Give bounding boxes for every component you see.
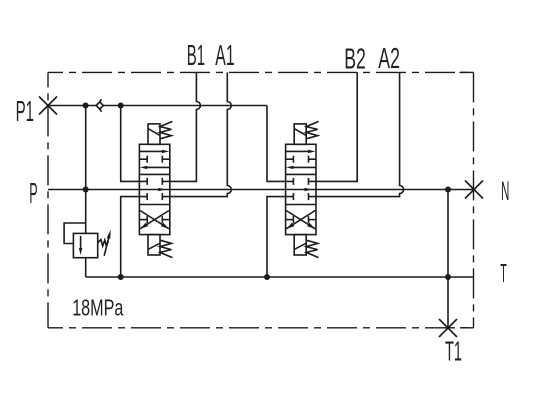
junction dot T/T1 xyxy=(445,274,451,280)
wire valve1 tank drop xyxy=(121,197,148,277)
valve V1 centre carryover arrow xyxy=(158,188,165,191)
svg-text:B1: B1 xyxy=(187,40,205,72)
wire P1 gallery horizontal xyxy=(48,105,267,107)
svg-text:A1: A1 xyxy=(215,40,234,72)
svg-text:T: T xyxy=(500,258,507,288)
valve V2 centre carryover arrow xyxy=(305,188,312,191)
svg-text:N: N xyxy=(501,176,509,206)
valve V1 position-a arrows xyxy=(139,150,164,152)
valve V2 position-a arrows xyxy=(286,150,311,152)
port P1 plug X xyxy=(39,97,57,115)
svg-text:B2: B2 xyxy=(344,43,366,75)
valve V1 position-b blocked stubs xyxy=(139,219,147,221)
relief valve flow arrow xyxy=(79,236,82,255)
svg-text:P: P xyxy=(29,178,37,210)
valve V1 centre blocked stubs top xyxy=(146,178,148,185)
valve V2 xyxy=(286,121,319,257)
valve V1 bottom spring xyxy=(160,240,172,257)
port N plug X xyxy=(465,181,483,199)
wire valve2 tank drop xyxy=(267,197,293,277)
junction dot T/valve2 xyxy=(264,274,270,280)
svg-text:A2: A2 xyxy=(378,43,400,75)
valve V1 top solenoid box xyxy=(148,124,160,144)
valve V1 top spring xyxy=(160,121,172,138)
wire B1 riser with hop over P1 xyxy=(162,72,200,181)
svg-text:T1: T1 xyxy=(445,335,462,366)
wire P main line xyxy=(48,189,474,191)
port T1 plug X xyxy=(439,319,457,337)
valve V1 position-b crossed arrows xyxy=(140,211,169,229)
valve V1 body xyxy=(139,144,169,234)
junction dot P/riser xyxy=(83,187,89,193)
wire valve1 inlet drop xyxy=(121,106,148,182)
relief valve adjust arrow xyxy=(104,230,111,256)
valve V1 xyxy=(139,121,172,257)
valve V1 bottom solenoid box xyxy=(148,235,160,255)
wire carryover drop to T1 xyxy=(447,190,449,328)
valve V2 body xyxy=(286,144,316,234)
valve V2 position-a blocked stubs xyxy=(286,158,294,160)
wire relief valve outlet xyxy=(85,258,87,277)
valve V2 centre blocked stubs bottom xyxy=(292,193,294,200)
wire P1 gallery drop to valve 2 inlet xyxy=(267,106,293,182)
wire relief valve pilot loop xyxy=(64,223,86,244)
wire relief valve inlet xyxy=(85,190,87,234)
wire A2 riser with hop over P xyxy=(309,72,404,196)
valve V2 top spring xyxy=(306,121,318,138)
junction dot P1/riser xyxy=(83,103,89,109)
junction dot P/carryover xyxy=(445,187,451,193)
wire T return line xyxy=(86,276,474,278)
junction dot P1/valve1 drop xyxy=(118,103,124,109)
relief valve spring xyxy=(98,240,109,247)
wire B2 riser xyxy=(309,72,358,181)
svg-text:18MPa: 18MPa xyxy=(72,295,123,321)
valve V1 centre blocked stubs bottom xyxy=(146,193,148,200)
wire A1 riser with hops over P1 and P xyxy=(162,72,231,196)
wire P to P1 riser xyxy=(85,106,87,190)
valve V2 position-b blocked stubs xyxy=(286,219,294,221)
valve V1 position-a blocked stubs xyxy=(139,158,147,160)
enclosure border (dash-dot valve block boundary) xyxy=(48,72,474,327)
junction dot T/valve1 xyxy=(118,274,124,280)
valve V2 position-b crossed arrows xyxy=(286,211,315,229)
check valve (diamond with seat ticks) on P1 gallery xyxy=(96,99,103,112)
relief valve RV (18MPa) body xyxy=(73,233,97,257)
valve V2 centre blocked stubs top xyxy=(292,178,294,185)
valve V2 top solenoid box xyxy=(294,124,306,144)
svg-text:P1: P1 xyxy=(16,96,34,128)
valve V2 bottom solenoid box xyxy=(294,235,306,255)
valve V2 bottom spring xyxy=(306,240,318,257)
